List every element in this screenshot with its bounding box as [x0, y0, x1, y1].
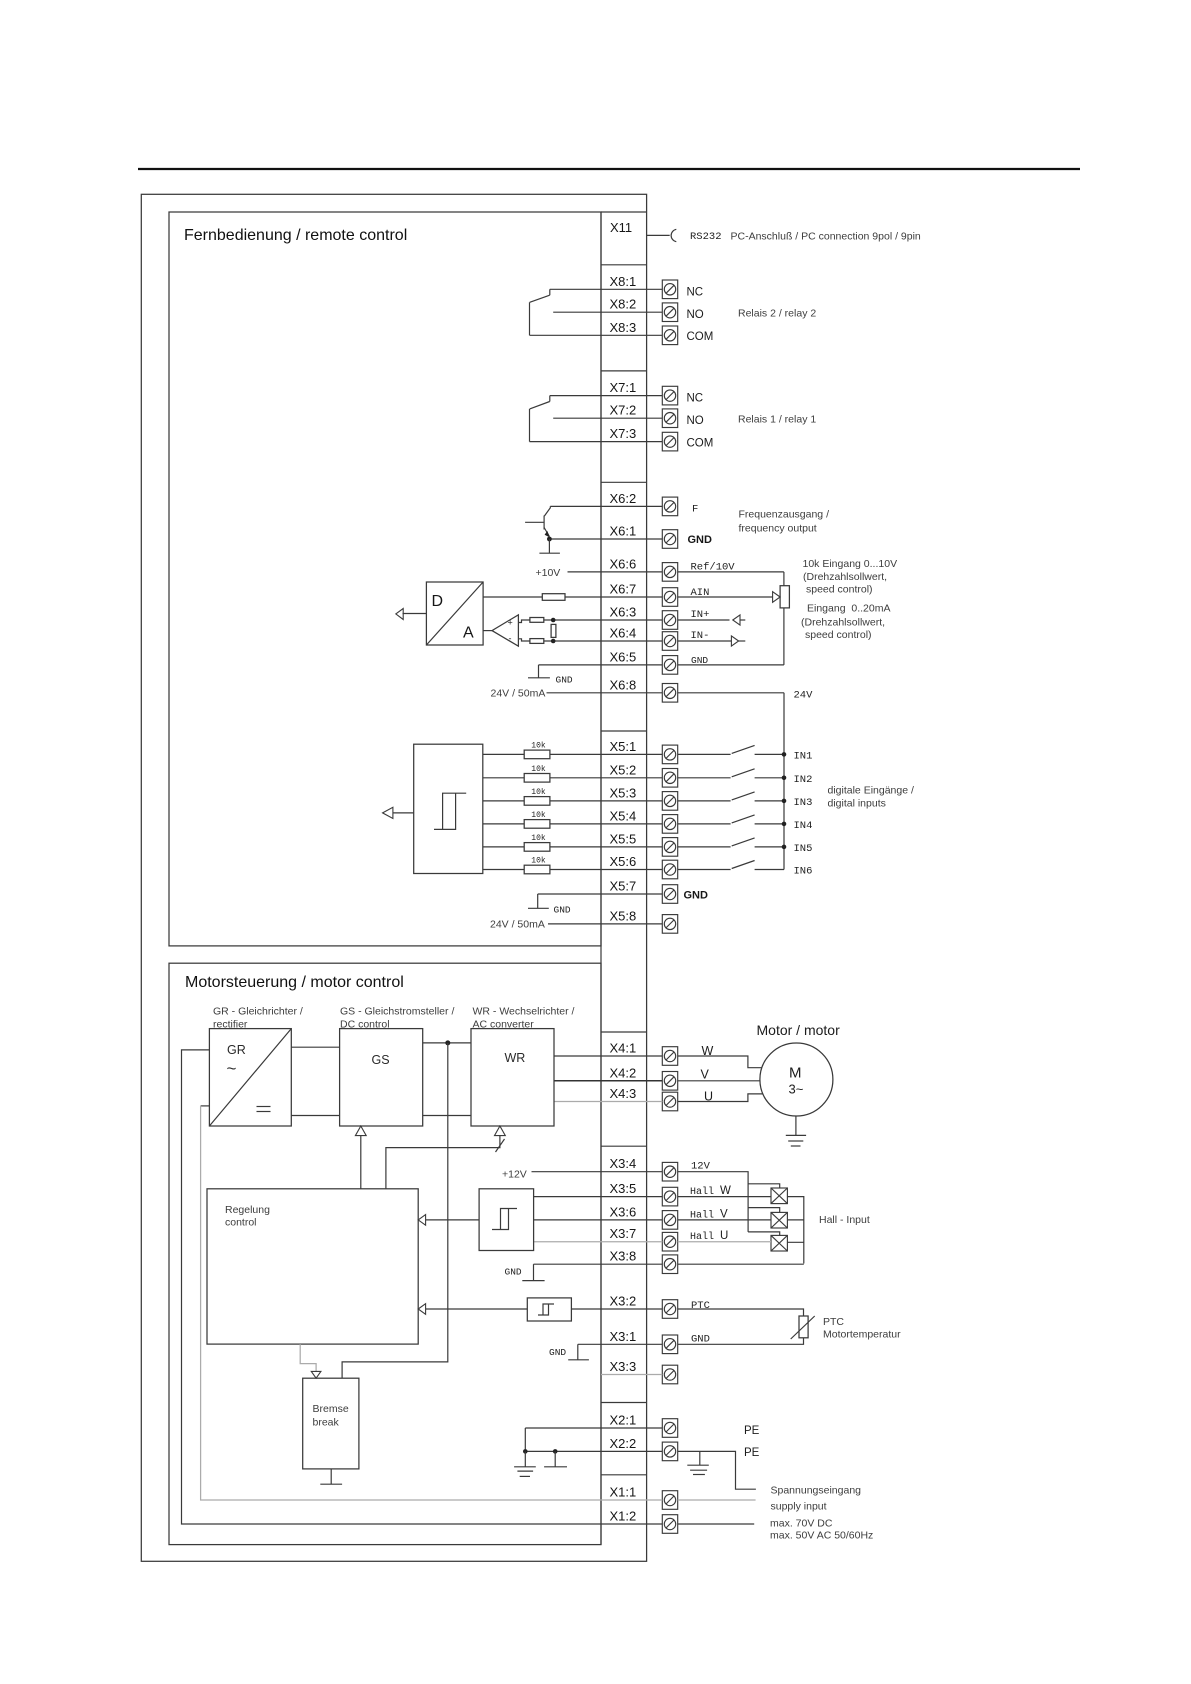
ptc hysteresis box U5 [527, 1298, 571, 1321]
motor earth bar2 [788, 1140, 803, 1142]
svg-text:IN5: IN5 [794, 843, 813, 855]
arrow D/A output [396, 609, 403, 620]
arrow WR control [495, 1126, 506, 1136]
terminal strip divider 7 [601, 1402, 647, 1404]
DC bus to Bremse [342, 1043, 448, 1378]
hysteresis symbol U4 [492, 1209, 517, 1230]
wire GR left lower [201, 1105, 210, 1107]
brake box Bremse [303, 1378, 359, 1469]
junction dot emitter/X6:1 [547, 537, 552, 542]
svg-text:PTC: PTC [823, 1316, 844, 1328]
terminal X5:6 [662, 860, 677, 879]
svg-text:frequency output: frequency output [739, 523, 817, 535]
terminal X8:2 [662, 303, 677, 322]
svg-text:X3:1: X3:1 [610, 1329, 637, 1344]
wire Ref/10V to potentiometer [678, 571, 784, 573]
svg-text:Frequenzausgang /: Frequenzausgang / [739, 509, 830, 521]
svg-text:24V: 24V [794, 690, 814, 702]
terminal strip divider 8 [601, 1474, 647, 1476]
terminal X6:8 [662, 684, 677, 703]
wire IN- right a [678, 640, 732, 642]
wire V to motor [678, 1080, 760, 1082]
wire into X3:2 [571, 1308, 662, 1310]
wire W to motor [678, 1056, 762, 1068]
hall output rail [787, 1197, 803, 1264]
wire R to strip X5:2 [550, 777, 662, 779]
svg-text:GND: GND [691, 1334, 710, 1346]
wire X3:6 to hall V [678, 1219, 771, 1221]
svg-text:COM: COM [687, 438, 714, 450]
relay 2 blade [530, 295, 550, 302]
terminal X3:2 [662, 1300, 677, 1319]
Fernbedienung inner box [169, 212, 601, 946]
junction dot IN2 [782, 776, 787, 781]
wire into X8:3 [530, 334, 663, 336]
wire into X8:2 [553, 311, 662, 313]
rectifier box GR [209, 1029, 291, 1126]
wire GS arrow to Regelung [360, 1136, 362, 1189]
svg-text:3~: 3~ [789, 1082, 804, 1097]
svg-text:break: break [313, 1417, 340, 1429]
svg-text:PTC: PTC [691, 1300, 710, 1312]
svg-text:X3:2: X3:2 [610, 1294, 637, 1309]
wire U5 to Regelung [426, 1308, 528, 1310]
arrow Regelung hall input [418, 1215, 425, 1226]
wire R-IN+ to strip [544, 619, 663, 621]
svg-text:WR: WR [505, 1051, 526, 1065]
svg-text:X5:4: X5:4 [610, 808, 637, 823]
terminal X2:2 [662, 1442, 677, 1461]
hall sensor U [771, 1235, 787, 1251]
svg-text:X7:2: X7:2 [610, 403, 637, 418]
svg-text:Motortemperatur: Motortemperatur [823, 1329, 901, 1341]
svg-text:X6:4: X6:4 [610, 626, 637, 641]
svg-text:GR: GR [227, 1043, 246, 1057]
svg-text:X4:1: X4:1 [610, 1041, 637, 1056]
ground bar under Q1 [539, 552, 560, 554]
strip top edge [601, 211, 647, 213]
terminal strip divider 2 [601, 370, 647, 372]
wire into X4:1 [554, 1055, 662, 1057]
svg-text:X5:2: X5:2 [610, 762, 637, 777]
terminal X6:6 [662, 563, 677, 582]
svg-text:IN1: IN1 [794, 750, 813, 762]
svg-text:Motorsteuerung / motor control: Motorsteuerung / motor control [185, 974, 404, 991]
svg-text:X11: X11 [610, 220, 632, 235]
svg-text:+10V: +10V [536, 567, 561, 579]
junction dot IN+ [551, 618, 556, 623]
terminal X3:8 [662, 1255, 677, 1274]
hall sensor W [771, 1188, 787, 1204]
wire into X3:3 [601, 1374, 662, 1376]
svg-text:M: M [789, 1065, 802, 1082]
junction dot IN3 [782, 799, 787, 804]
svg-text:X6:5: X6:5 [610, 649, 637, 664]
wire into X5:8 [548, 923, 662, 925]
motor earth stem [795, 1116, 797, 1135]
resistor 10k X5:3 [524, 797, 550, 806]
terminal X4:1 [662, 1047, 677, 1066]
wire into X3:6 [534, 1219, 663, 1221]
svg-text:Bremse: Bremse [313, 1403, 349, 1415]
svg-text:+12V: +12V [502, 1169, 527, 1181]
svg-text:IN6: IN6 [794, 866, 813, 878]
12V branch hall V [748, 1208, 780, 1213]
resistor 10k X5:1 [524, 750, 550, 759]
svg-text:(Drehzahlsollwert,: (Drehzahlsollwert, [803, 571, 887, 583]
wire X5:1 to switch [678, 753, 731, 755]
svg-text:X8:3: X8:3 [610, 320, 637, 335]
svg-text:X7:1: X7:1 [610, 380, 637, 395]
svg-text:Relais 1 / relay 1: Relais 1 / relay 1 [738, 414, 816, 426]
wire X5:2 to switch [678, 777, 731, 779]
wire X5:7 to GND symbol [537, 894, 539, 908]
wire GR-GS bottom [291, 1115, 339, 1117]
wire U3 to R X5:2 [483, 777, 524, 779]
wire X6:5 to pot rail [678, 664, 784, 666]
svg-text:X3:7: X3:7 [610, 1226, 637, 1241]
terminal X3:6 [662, 1211, 677, 1230]
wire IN+ right a [678, 619, 730, 621]
wire into X6:5 [539, 664, 663, 666]
svg-text:GND: GND [505, 1267, 522, 1278]
wire D/A output left [403, 613, 427, 615]
wire R-IN- to strip [544, 640, 663, 642]
svg-text:X8:1: X8:1 [610, 274, 637, 289]
outer enclosure box [141, 194, 646, 1561]
svg-text:digitale Eingänge /: digitale Eingänge / [828, 785, 914, 797]
wire into X3:7 [534, 1241, 663, 1243]
terminal X6:2 [662, 497, 677, 516]
svg-text:X5:6: X5:6 [610, 854, 637, 869]
X2 earth bar3 [520, 1475, 530, 1477]
junction dot X2 chassis [553, 1449, 558, 1454]
wire switch contact IN2 [755, 777, 784, 779]
svg-text:10k Eingang 0...10V: 10k Eingang 0...10V [803, 558, 898, 570]
terminal X5:2 [662, 769, 677, 788]
wire switch contact IN1 [755, 753, 784, 755]
terminal X3:4 [662, 1162, 677, 1181]
wire X3:5 to hall W [678, 1196, 771, 1198]
switch blade IN4 [732, 815, 755, 823]
svg-text:X1:1: X1:1 [610, 1485, 637, 1500]
wire into X7:1 [550, 395, 663, 397]
terminal X5:1 [662, 745, 677, 764]
wire U3 to R X5:1 [483, 753, 524, 755]
X2 earth stem [524, 1451, 526, 1466]
wire into X6:2 [550, 505, 662, 507]
potentiometer R-pot [780, 586, 789, 608]
wire into X6:6 [568, 571, 663, 573]
resistor 10k X5:2 [524, 774, 550, 783]
wire D/A to R-AIN [483, 596, 542, 598]
wire X2:2 PE right [678, 1451, 756, 1489]
wire U3 to R X5:4 [483, 823, 524, 825]
svg-text:-: - [509, 634, 512, 644]
junction dot IN4 [782, 822, 787, 827]
svg-text:X5:3: X5:3 [610, 785, 637, 800]
resistor R-IN- [530, 639, 544, 644]
switch blade IN3 [732, 792, 755, 800]
terminal X6:3 [662, 611, 677, 630]
terminal strip divider 3 [601, 481, 647, 483]
svg-text:10k: 10k [531, 857, 546, 866]
wire into X4:2 [554, 1080, 662, 1082]
PE earth bar3 [693, 1474, 705, 1476]
svg-text:X4:3: X4:3 [610, 1086, 637, 1101]
svg-text:GND: GND [556, 675, 573, 686]
terminal X5:8 [662, 915, 677, 934]
svg-text:PE: PE [744, 1425, 760, 1437]
wire X1:1 gray [201, 1106, 663, 1500]
svg-text:IN2: IN2 [794, 774, 813, 786]
relay 1 blade [530, 402, 550, 409]
wire into X3:4 [532, 1171, 663, 1173]
motor earth bar3 [791, 1145, 801, 1147]
svg-text:X3:8: X3:8 [610, 1249, 637, 1264]
wire R to strip X5:3 [550, 800, 662, 802]
wire X11 to RS232 plug [647, 234, 670, 236]
wire U3 to R X5:3 [483, 800, 524, 802]
terminal X7:3 [662, 432, 677, 451]
relay 1 NC contact tick [549, 396, 551, 402]
hall sensor V [771, 1212, 787, 1228]
svg-text:+: + [508, 618, 513, 628]
Schmitt trigger box U3 [414, 744, 483, 873]
terminal X6:7 [662, 588, 677, 607]
PE earth stem right [699, 1451, 701, 1465]
hall V output [787, 1219, 803, 1221]
wire WR arrow down [386, 1136, 500, 1189]
resistor R-AIN [542, 594, 565, 601]
wire X3:7 to hall U [678, 1241, 771, 1243]
op-amp U2 [492, 615, 518, 646]
svg-text:NC: NC [687, 287, 704, 299]
svg-text:speed control): speed control) [805, 629, 872, 641]
wire GR left upper to X1:2 [182, 1050, 663, 1524]
svg-text:X3:4: X3:4 [610, 1156, 637, 1171]
wire IN+ right b [740, 619, 745, 621]
terminal X3:3 [662, 1365, 677, 1384]
wire X3:8 GND [533, 1264, 535, 1280]
svg-text:Spannungseingang: Spannungseingang [771, 1485, 862, 1497]
svg-text:F: F [692, 504, 698, 516]
wire X2:1 left [524, 1428, 526, 1451]
three-phase slash [496, 1139, 505, 1152]
wire into X4:3 [554, 1101, 662, 1103]
wire X1:1 right gray [678, 1499, 756, 1501]
wire U3 to R X5:5 [483, 846, 524, 848]
arrow pot wiper [773, 592, 781, 603]
svg-text:10k: 10k [531, 788, 546, 797]
terminal X4:3 [662, 1092, 677, 1111]
terminal X4:2 [662, 1072, 677, 1091]
svg-text:24V / 50mA: 24V / 50mA [490, 919, 545, 931]
wire GS-WR top [423, 1042, 471, 1044]
svg-text:10k: 10k [531, 811, 546, 820]
wire op-amp minus input [518, 639, 529, 641]
terminal X6:5 [662, 656, 677, 675]
wire emitter to ground [548, 539, 550, 553]
wire R to strip X5:6 [550, 869, 662, 871]
wire U to motor [678, 1094, 763, 1102]
wire into X2:1 [525, 1427, 662, 1429]
svg-text:X5:1: X5:1 [610, 739, 637, 754]
svg-text:COM: COM [687, 331, 714, 343]
svg-text:W: W [702, 1044, 714, 1058]
svg-text:12V: 12V [691, 1161, 711, 1173]
junction dot IN- [551, 639, 556, 644]
ground bar X5:7 [528, 907, 549, 909]
svg-text:24V / 50mA: 24V / 50mA [491, 688, 546, 700]
svg-text:PC-Anschluß / PC connection 9p: PC-Anschluß / PC connection 9pol / 9pin [731, 231, 921, 243]
svg-text:Regelung: Regelung [225, 1204, 270, 1216]
relay 1 pole wire [529, 409, 531, 442]
svg-text:PE: PE [744, 1447, 760, 1459]
hysteresis symbol U3 [434, 793, 466, 829]
wire R to strip X5:1 [550, 753, 662, 755]
svg-text:X6:8: X6:8 [610, 677, 637, 692]
svg-text:Hall - Input: Hall - Input [819, 1214, 870, 1226]
wire into X7:2 [553, 417, 662, 419]
junction dot IN5 [782, 845, 787, 850]
X2 chassis bar [544, 1466, 567, 1468]
svg-text:GND: GND [554, 905, 571, 916]
wire switch contact IN3 [755, 800, 784, 802]
wire switch contact IN5 [755, 846, 784, 848]
DC equals top [257, 1106, 271, 1108]
PTC diagonal [791, 1316, 815, 1339]
svg-text:A: A [463, 625, 474, 642]
wire X5:4 to switch [678, 823, 731, 825]
svg-text:X5:8: X5:8 [610, 908, 637, 923]
wire into X3:5 [534, 1196, 663, 1198]
wire X6:5 to GND symbol [538, 665, 540, 678]
svg-text:X5:5: X5:5 [610, 831, 637, 846]
svg-text:D: D [432, 593, 444, 610]
terminal X6:1 [662, 530, 677, 549]
wire pot top [783, 572, 785, 586]
wire X3:2 to PTC [678, 1309, 804, 1316]
wire X3:1 to PTC bottom [678, 1338, 804, 1345]
wire into X3:1 [578, 1343, 663, 1345]
svg-text:control: control [225, 1217, 257, 1229]
hall U output [787, 1241, 803, 1243]
PE earth bar1 [687, 1464, 709, 1466]
terminal X6:4 [662, 632, 677, 651]
junction dot IN1 [782, 752, 787, 757]
wire U3 input [393, 812, 414, 814]
wire R to strip X5:5 [550, 846, 662, 848]
Motorsteuerung inner box [169, 963, 601, 1544]
motor circle M1 [760, 1043, 833, 1116]
switch blade IN1 [732, 745, 755, 753]
svg-text:GND: GND [684, 890, 709, 902]
svg-text:GND: GND [688, 534, 713, 546]
svg-text:IN3: IN3 [794, 797, 813, 809]
terminal X1:1 [662, 1491, 677, 1510]
svg-text:X8:2: X8:2 [610, 297, 637, 312]
svg-text:NC: NC [687, 393, 704, 405]
terminal strip left rail [600, 212, 602, 1545]
top rule [138, 168, 1080, 170]
resistor 10k X5:4 [524, 820, 550, 829]
svg-text:U: U [704, 1090, 713, 1104]
resistor 10k X5:5 [524, 843, 550, 852]
wire into X2:2 [525, 1450, 662, 1452]
wire GS-WR bottom [423, 1115, 471, 1117]
svg-text:X3:6: X3:6 [610, 1204, 637, 1219]
ground bar X6:5 [528, 677, 550, 679]
12V branch hall W [748, 1184, 780, 1188]
svg-text:X2:2: X2:2 [610, 1436, 637, 1451]
svg-text:X1:2: X1:2 [610, 1509, 637, 1524]
arrow GS control [355, 1126, 366, 1136]
wire X6:8 to 24V rail [678, 692, 784, 694]
terminal X3:7 [662, 1232, 677, 1251]
svg-text:X4:2: X4:2 [610, 1065, 637, 1080]
terminal strip divider 4 [601, 730, 647, 732]
wire op-amp plus input [518, 620, 529, 623]
resistor 10k X5:6 [524, 865, 550, 874]
resistor R-term vertical [551, 624, 556, 637]
wire X5:3 to switch [678, 800, 731, 802]
svg-text:X3:3: X3:3 [610, 1359, 637, 1374]
hysteresis symbol U5 [538, 1304, 554, 1315]
svg-text:GND: GND [549, 1347, 566, 1358]
svg-text:~: ~ [227, 1059, 237, 1078]
terminal X7:2 [662, 409, 677, 428]
svg-text:Fernbedienung / remote control: Fernbedienung / remote control [184, 227, 407, 244]
wire GR-GS top [291, 1046, 339, 1048]
svg-text:X6:2: X6:2 [610, 491, 637, 506]
svg-text:speed control): speed control) [806, 584, 873, 596]
svg-text:supply input: supply input [771, 1501, 827, 1513]
svg-text:10k: 10k [531, 834, 546, 843]
terminal X1:2 [662, 1515, 677, 1534]
switch blade IN5 [732, 838, 755, 846]
wire op-amp out to D/A [483, 630, 492, 632]
wire X5:6 to switch [678, 869, 731, 871]
wire R-AIN to strip [565, 596, 662, 598]
wire X1:2 right [678, 1523, 755, 1525]
svg-text:10k: 10k [531, 765, 546, 774]
arrow IN+ inline [733, 615, 740, 625]
wire into X6:1 [549, 538, 662, 540]
wire into X6:8 [547, 692, 663, 694]
terminal X3:1 [662, 1335, 677, 1354]
X2 earth bar2 [517, 1470, 533, 1472]
ground bar X3:8 [522, 1280, 544, 1282]
terminal X2:1 [662, 1419, 677, 1438]
svg-text:X6:6: X6:6 [610, 556, 637, 571]
terminal X7:1 [662, 386, 677, 405]
12V branch hall U [748, 1232, 780, 1236]
ground bar X3:1 [568, 1359, 589, 1361]
relay 2 NC contact tick [549, 289, 551, 295]
junction dot DC bus [445, 1040, 450, 1045]
svg-text:Eingang 0..20mA: Eingang 0..20mA [807, 603, 890, 615]
svg-text:RS232: RS232 [690, 231, 722, 243]
wire switch contact IN6 [755, 869, 784, 871]
svg-text:digital inputs: digital inputs [828, 798, 886, 810]
wire X5:5 to switch [678, 846, 731, 848]
DC equals bottom [257, 1111, 271, 1113]
ground bar Bremse [320, 1483, 342, 1485]
wire X3:8 to rail [678, 1263, 804, 1265]
relay 2 pole wire [529, 302, 531, 335]
RS232 connector arc [671, 229, 676, 241]
